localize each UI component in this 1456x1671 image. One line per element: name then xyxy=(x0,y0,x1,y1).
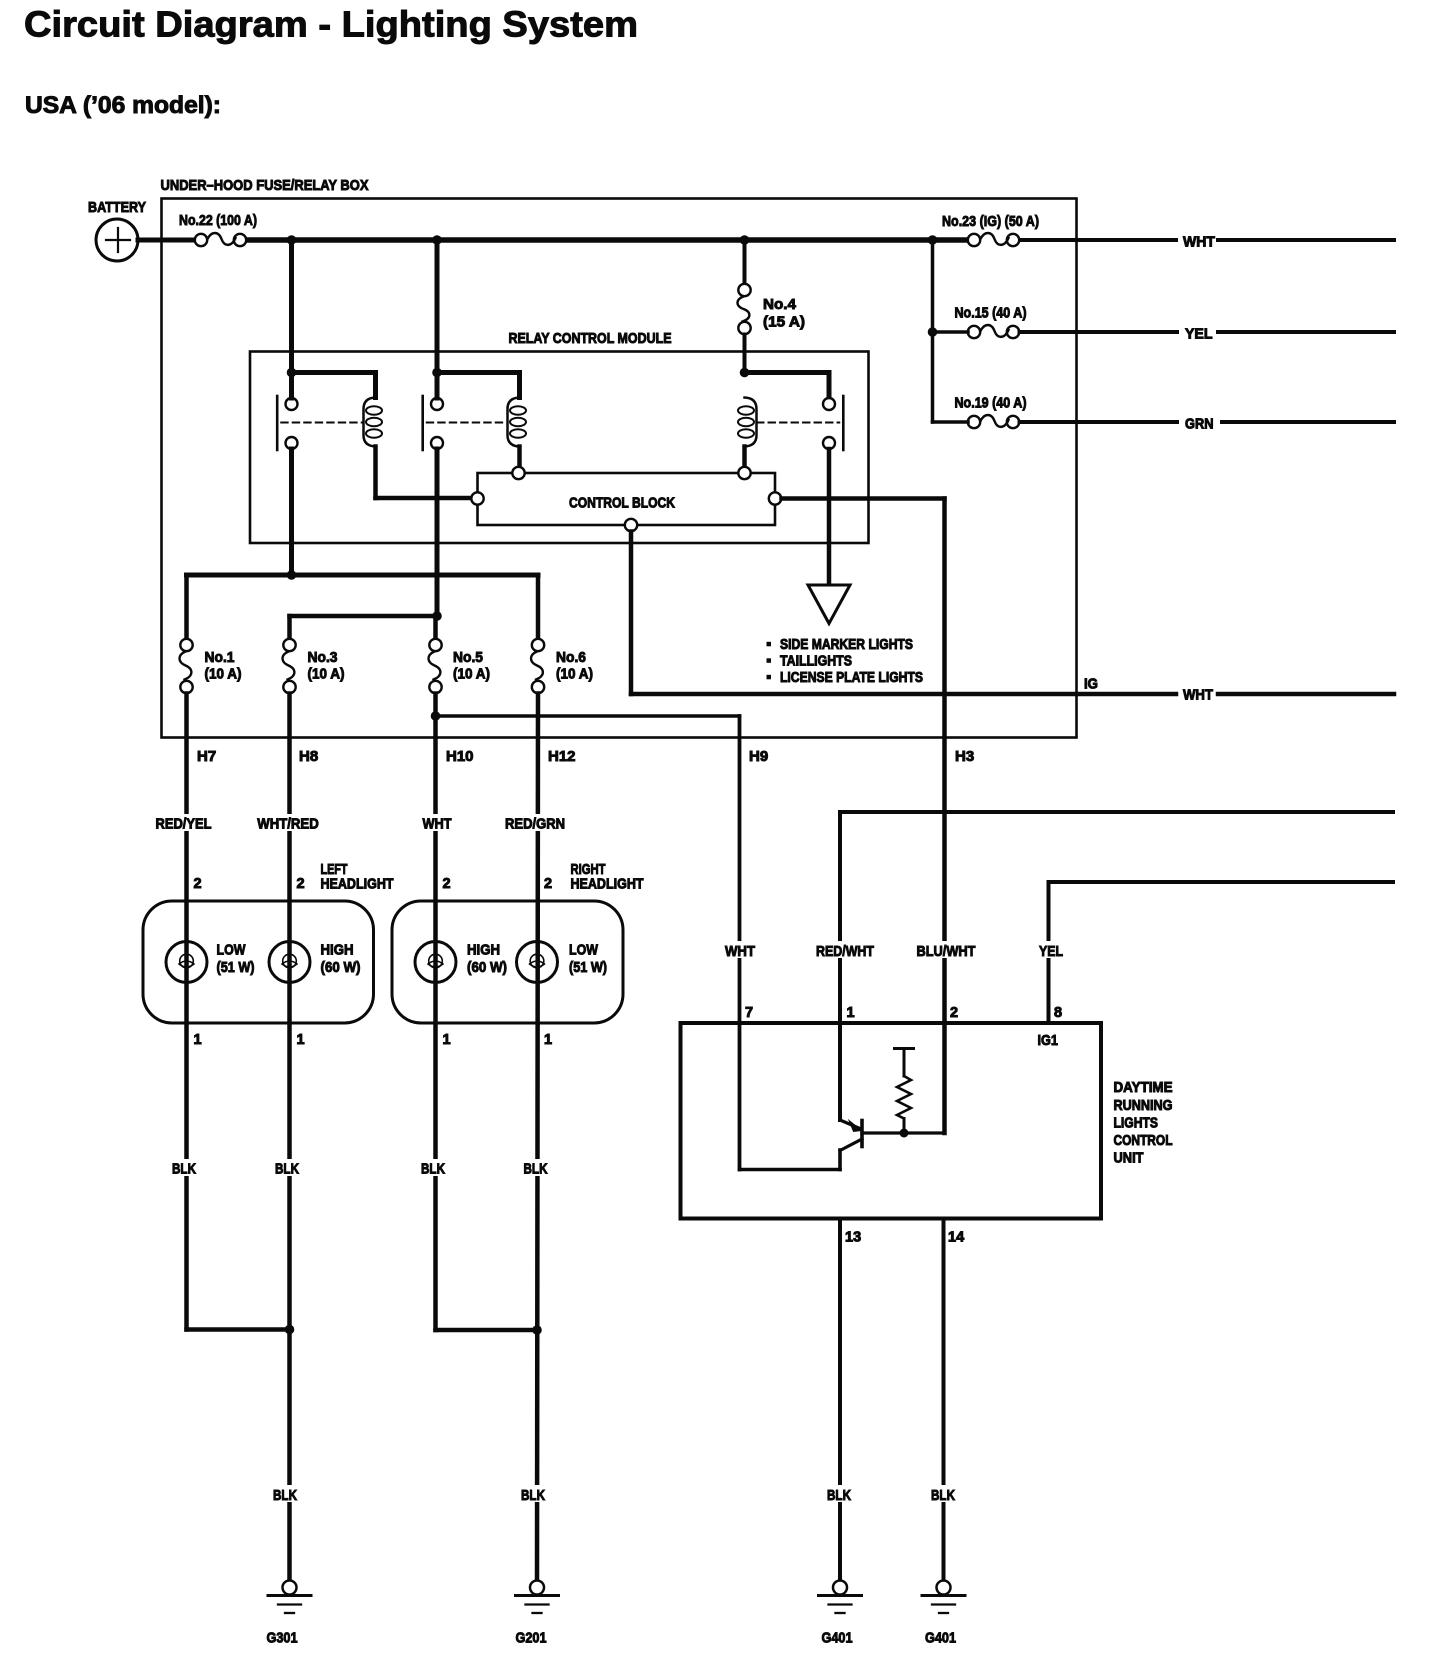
svg-text:(51 W): (51 W) xyxy=(569,959,607,976)
svg-text:(10 A): (10 A) xyxy=(205,666,242,683)
svg-text:1: 1 xyxy=(193,1032,201,1048)
svg-text:Circuit Diagram - Lighting Sys: Circuit Diagram - Lighting System xyxy=(24,4,638,45)
svg-text:SIDE MARKER LIGHTS: SIDE MARKER LIGHTS xyxy=(780,637,913,653)
svg-text:WHT: WHT xyxy=(1183,687,1213,704)
svg-text:2: 2 xyxy=(950,1005,958,1021)
svg-text:1: 1 xyxy=(544,1032,552,1048)
svg-text:USA (’06 model):: USA (’06 model): xyxy=(25,92,221,119)
svg-text:No.5: No.5 xyxy=(453,649,483,666)
svg-text:BLK: BLK xyxy=(524,1161,548,1178)
svg-text:BATTERY: BATTERY xyxy=(88,199,146,216)
svg-text:No.15 (40 A): No.15 (40 A) xyxy=(955,305,1027,322)
svg-text:2: 2 xyxy=(296,876,304,892)
svg-text:No.3: No.3 xyxy=(308,649,338,666)
svg-text:G401: G401 xyxy=(925,1630,956,1647)
svg-text:13: 13 xyxy=(845,1230,861,1246)
svg-text:YEL: YEL xyxy=(1185,326,1213,343)
svg-text:BLK: BLK xyxy=(827,1487,851,1504)
svg-text:No.23 (IG) (50 A): No.23 (IG) (50 A) xyxy=(942,213,1039,230)
svg-text:LOW: LOW xyxy=(569,942,599,959)
svg-text:2: 2 xyxy=(193,876,201,892)
svg-text:(60 W): (60 W) xyxy=(321,959,361,976)
svg-text:H12: H12 xyxy=(548,748,576,765)
svg-text:1: 1 xyxy=(442,1032,450,1048)
svg-text:IG: IG xyxy=(1084,676,1098,693)
svg-text:LICENSE PLATE LIGHTS: LICENSE PLATE LIGHTS xyxy=(780,670,923,686)
svg-text:GRN: GRN xyxy=(1185,416,1214,433)
svg-text:TAILLIGHTS: TAILLIGHTS xyxy=(780,654,852,670)
svg-text:UNDER–HOOD FUSE/RELAY BOX: UNDER–HOOD FUSE/RELAY BOX xyxy=(161,177,369,194)
svg-text:DAYTIME: DAYTIME xyxy=(1114,1080,1173,1096)
svg-text:BLU/WHT: BLU/WHT xyxy=(917,943,976,960)
svg-text:RED/GRN: RED/GRN xyxy=(505,816,565,833)
svg-text:UNIT: UNIT xyxy=(1114,1151,1144,1167)
svg-text:2: 2 xyxy=(544,876,552,892)
svg-text:RELAY CONTROL MODULE: RELAY CONTROL MODULE xyxy=(509,330,672,347)
svg-text:1: 1 xyxy=(847,1005,855,1021)
svg-text:No.1: No.1 xyxy=(205,649,235,666)
svg-text:(10 A): (10 A) xyxy=(556,666,593,683)
svg-text:G401: G401 xyxy=(822,1630,853,1647)
svg-text:No.19 (40 A): No.19 (40 A) xyxy=(955,395,1027,412)
svg-text:YEL: YEL xyxy=(1039,943,1063,960)
svg-text:HEADLIGHT: HEADLIGHT xyxy=(571,876,644,893)
svg-text:(15 A): (15 A) xyxy=(763,314,805,331)
svg-text:8: 8 xyxy=(1054,1005,1062,1021)
svg-text:No.22 (100 A): No.22 (100 A) xyxy=(179,212,257,229)
svg-text:RED/YEL: RED/YEL xyxy=(156,816,212,833)
svg-text:BLK: BLK xyxy=(931,1487,955,1504)
svg-text:BLK: BLK xyxy=(521,1487,545,1504)
svg-text:BLK: BLK xyxy=(273,1487,297,1504)
svg-text:CONTROL: CONTROL xyxy=(1114,1133,1173,1149)
svg-text:(51 W): (51 W) xyxy=(217,959,255,976)
svg-text:WHT: WHT xyxy=(725,943,755,960)
svg-text:WHT/RED: WHT/RED xyxy=(257,816,319,833)
svg-text:RUNNING: RUNNING xyxy=(1114,1098,1173,1114)
svg-text:WHT: WHT xyxy=(1183,234,1215,251)
svg-text:H8: H8 xyxy=(299,748,318,765)
svg-text:LIGHTS: LIGHTS xyxy=(1114,1116,1159,1132)
svg-text:2: 2 xyxy=(442,876,450,892)
svg-text:(60 W): (60 W) xyxy=(467,959,507,976)
svg-text:H10: H10 xyxy=(446,748,474,765)
svg-text:RED/WHT: RED/WHT xyxy=(816,943,874,960)
svg-text:WHT: WHT xyxy=(423,816,452,833)
svg-text:No.6: No.6 xyxy=(556,649,586,666)
svg-text:BLK: BLK xyxy=(421,1161,445,1178)
svg-text:CONTROL BLOCK: CONTROL BLOCK xyxy=(569,495,675,512)
svg-text:No.4: No.4 xyxy=(763,296,797,313)
svg-text:HEADLIGHT: HEADLIGHT xyxy=(321,876,394,893)
svg-text:HIGH: HIGH xyxy=(467,942,500,959)
svg-text:G201: G201 xyxy=(516,1630,547,1647)
svg-text:BLK: BLK xyxy=(275,1161,299,1178)
svg-text:HIGH: HIGH xyxy=(321,942,354,959)
svg-text:LOW: LOW xyxy=(217,942,247,959)
svg-text:H7: H7 xyxy=(197,748,216,765)
svg-text:H3: H3 xyxy=(955,748,974,765)
svg-text:G301: G301 xyxy=(267,1630,298,1647)
svg-text:IG1: IG1 xyxy=(1038,1032,1059,1049)
svg-text:1: 1 xyxy=(296,1032,304,1048)
svg-text:14: 14 xyxy=(948,1230,964,1246)
svg-text:H9: H9 xyxy=(749,748,768,765)
svg-text:BLK: BLK xyxy=(172,1161,196,1178)
svg-text:7: 7 xyxy=(745,1005,753,1021)
svg-text:(10 A): (10 A) xyxy=(453,666,490,683)
svg-text:(10 A): (10 A) xyxy=(308,666,345,683)
